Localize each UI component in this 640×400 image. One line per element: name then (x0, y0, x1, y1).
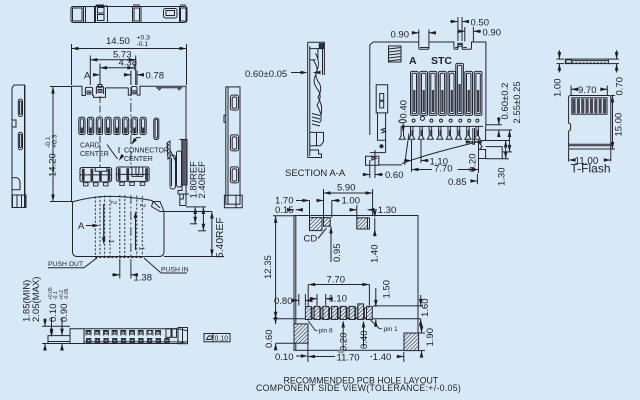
section A-A view (308, 42, 325, 157)
svg-text:1.38: 1.38 (134, 273, 153, 284)
svg-text:PUSH OUT: PUSH OUT (48, 261, 83, 268)
svg-text:0.40: 0.40 (399, 100, 410, 119)
dim 9.70 (tflash) (571, 86, 607, 96)
svg-text:1.30: 1.30 (378, 205, 397, 216)
svg-text:5.90: 5.90 (337, 183, 356, 194)
svg-text:1.60: 1.60 (420, 299, 431, 318)
strip dim lines (42, 318, 70, 350)
rear coil spring (389, 46, 402, 62)
pcb pad CD (310, 218, 323, 231)
dim 1.60 (pcb, rotated) (373, 295, 423, 327)
svg-text:1.10: 1.10 (329, 294, 348, 305)
pcb pad small (next to CD) (324, 218, 331, 227)
dim 1.00 (tflash, rotated) (557, 50, 565, 73)
svg-text:CENTER: CENTER (80, 151, 109, 158)
card center line (99, 96, 101, 168)
dim 0.40 (pcb, rotated) (363, 322, 365, 347)
dim 1.40 (pcb right pad, rotated) (368, 218, 375, 237)
svg-text:0.40: 0.40 (359, 331, 370, 350)
svg-text:1.90: 1.90 (425, 328, 436, 347)
svg-text:0.60±0.2: 0.60±0.2 (500, 83, 511, 120)
bottom side view strip (48, 328, 188, 344)
body right bottom steps (180, 194, 186, 205)
svg-text:0.90: 0.90 (59, 304, 70, 323)
svg-text:SECTION A-A: SECTION A-A (285, 168, 346, 179)
dim 14.20 +0.3/-0.1 (left, rotated) (50, 87, 72, 202)
card outline below body (72, 196, 225, 256)
svg-text:0.15: 0.15 (275, 205, 294, 216)
dim 1.10 (pcb) (310, 294, 332, 306)
svg-text:2.40REF: 2.40REF (197, 161, 208, 199)
dim 0.20 (pcb, rotated) (342, 322, 344, 350)
svg-text:0.95: 0.95 (332, 244, 343, 263)
tflash top view (565, 59, 608, 64)
svg-text:7.70: 7.70 (327, 275, 346, 286)
pcb pad bottom-right (404, 333, 419, 351)
top groove right (156, 87, 183, 89)
contact block left (80, 168, 112, 182)
dim 0.60±0.2 (rear right, rotated) (486, 117, 502, 137)
svg-text:T-Flash: T-Flash (571, 161, 611, 175)
svg-text:-0.05: -0.05 (64, 288, 70, 300)
svg-text:1.00: 1.00 (553, 79, 564, 98)
svg-text:0.60±0.05: 0.60±0.05 (245, 69, 287, 80)
push arrows with rotated digits (104, 204, 136, 250)
dim 1.90 (pcb, rotated) (419, 325, 425, 356)
svg-text:COMPONENT SIDE VIEW(TOLERANCE:: COMPONENT SIDE VIEW(TOLERANCE:+/-0.05) (256, 383, 461, 393)
left side view strip (12, 85, 26, 208)
pcb outline (294, 216, 418, 351)
svg-text:0.90: 0.90 (483, 28, 502, 39)
svg-text:0.78: 0.78 (146, 71, 165, 82)
svg-text:1: 1 (107, 240, 114, 244)
dashed card travel lines (95, 195, 142, 258)
svg-text:pin 1: pin 1 (384, 326, 398, 333)
svg-text:2: 2 (139, 204, 146, 208)
pcb pad top right (357, 218, 368, 229)
rear pins (411, 63, 482, 115)
connector center line (130, 71, 132, 168)
pcb pad bottom-left (294, 324, 308, 343)
svg-text:0.85: 0.85 (448, 177, 467, 188)
svg-text:1.40: 1.40 (370, 245, 381, 264)
top tab 1 (72, 86, 86, 95)
top tab 2 (93, 94, 106, 97)
dim 14.50 +0.3/-0.1 (72, 44, 187, 85)
svg-text:STC: STC (431, 55, 452, 67)
svg-text:0.60: 0.60 (264, 330, 275, 349)
dim 0.80 (pcb) (296, 294, 311, 306)
svg-text:CD: CD (304, 234, 318, 245)
dim 11.70 / 1.40 (pcb bottom) (308, 344, 404, 363)
svg-text:0.90: 0.90 (391, 30, 410, 41)
oval pad bottom (338, 350, 345, 354)
dim 5.90 (pcb) (324, 189, 373, 218)
svg-text:0.80: 0.80 (274, 296, 293, 307)
dim 0.90 left (rear) (412, 30, 436, 42)
svg-text:4.38: 4.38 (119, 58, 138, 69)
svg-text:9.70: 9.70 (578, 85, 597, 96)
svg-text:A: A (78, 221, 85, 232)
dim 2.55±0.25 (rear right, rotated) (486, 130, 512, 152)
dim 1.38 (112, 259, 133, 279)
svg-text:PUSH IN: PUSH IN (161, 267, 189, 274)
svg-text:0.60: 0.60 (385, 170, 404, 181)
flatness frame 0.10 (204, 334, 230, 342)
svg-text:1.30: 1.30 (497, 168, 508, 187)
dim 1.10 (rear) (404, 140, 429, 172)
svg-text:-0.1: -0.1 (45, 136, 52, 148)
right side view strip (224, 87, 242, 208)
dim 0.70 (tflash, rotated) (608, 50, 619, 73)
strip contacts (86, 331, 161, 336)
rear bottom-left hook (366, 113, 410, 165)
svg-text:0.10: 0.10 (215, 336, 229, 343)
svg-text:1.50: 1.50 (382, 280, 393, 299)
svg-text:11.70: 11.70 (337, 353, 360, 364)
REF dims (186, 207, 212, 257)
svg-text:-0.1: -0.1 (137, 41, 149, 48)
svg-text:5.40REF: 5.40REF (215, 217, 226, 258)
rear view body (370, 42, 486, 135)
dim 7.70 (pcb) (308, 285, 369, 306)
svg-text:12.35: 12.35 (263, 255, 274, 279)
dim 0.90 right (rear) (458, 27, 481, 42)
rear right notch (478, 126, 503, 159)
top view strip (71, 5, 187, 23)
dim 12.35 (pcb, rotated) (273, 216, 421, 319)
svg-text:CARD: CARD (80, 143, 100, 150)
dim 7.70 (rear) (412, 140, 479, 173)
spring contact detail (right of blocks) (167, 141, 182, 189)
svg-text:0.70: 0.70 (615, 77, 626, 96)
svg-text:0.10: 0.10 (48, 304, 59, 323)
svg-text:A: A (409, 55, 417, 67)
rear legs (399, 126, 483, 139)
svg-text:15.00: 15.00 (614, 113, 625, 137)
dim 0.15 (pcb) (287, 209, 303, 211)
svg-text:2.05(MAX): 2.05(MAX) (31, 277, 42, 322)
dim 4.38 (100, 64, 134, 86)
svg-text:2.55±0.25: 2.55±0.25 (512, 81, 523, 123)
svg-text:pin 8: pin 8 (319, 328, 333, 335)
svg-text:CENTER: CENTER (124, 156, 153, 163)
svg-text:+0.3: +0.3 (52, 134, 59, 148)
pcb pin pads row (305, 304, 372, 320)
svg-text:7.70: 7.70 (434, 164, 453, 175)
dim 0.95 (pcb, rotated) (330, 226, 332, 262)
dim 0.20 (rear, rotated) (467, 128, 480, 145)
tflash card front (569, 96, 611, 150)
svg-text:14.50: 14.50 (106, 36, 130, 47)
dim 11.00 (tflash) (569, 149, 611, 162)
svg-text:CONNECTOR: CONNECTOR (124, 147, 169, 154)
dim 0.50 (rear) (450, 17, 469, 41)
dim 1.00 (pcb) (317, 201, 340, 218)
dim 0.85 (rear bottom) (471, 174, 478, 185)
dim 1.70 (pcb) (296, 201, 310, 218)
main front view body (72, 85, 187, 203)
svg-text:0.10: 0.10 (275, 352, 294, 363)
dim 1.30 (pcb) (349, 205, 377, 218)
dim 5.73 (90, 56, 135, 86)
pins row (main view) (79, 117, 159, 139)
svg-text:1: 1 (138, 247, 145, 251)
svg-text:A: A (84, 71, 91, 82)
rear left latch (376, 85, 388, 113)
dim 1.50 (pcb, rotated) (375, 288, 377, 327)
dim 15.00 (tflash, rotated) (611, 96, 615, 150)
dim 0.60 (rear bottom left) (363, 150, 383, 178)
rear circles row (399, 116, 479, 123)
svg-text:14.20: 14.20 (48, 153, 59, 177)
contact block right (116, 167, 149, 181)
svg-text:0.20: 0.20 (339, 333, 350, 352)
rear card arc (402, 141, 481, 164)
svg-text:1.00: 1.00 (342, 196, 361, 207)
svg-text:2: 2 (110, 201, 117, 205)
dim 0.60 (pcb, rotated) (276, 319, 294, 349)
svg-text:1.40: 1.40 (373, 352, 392, 363)
dim 1.30 (rear right, rotated) (486, 141, 509, 159)
top tab 3 (128, 88, 131, 95)
